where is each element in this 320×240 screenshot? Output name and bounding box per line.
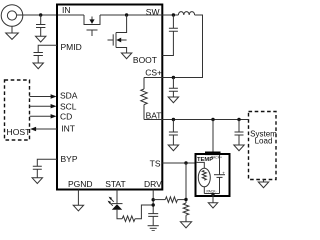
node DRV junction lower	[152, 203, 155, 206]
svg-text:CS+: CS+	[145, 67, 162, 77]
ground (jack)	[6, 26, 19, 39]
capacitor C8 (DRV)	[148, 214, 158, 226]
wire R3 to TS node	[178, 199, 187, 201]
svg-text:INT: INT	[61, 123, 75, 133]
wire BAT to pack	[212, 120, 214, 152]
input DC jack J1	[1, 5, 23, 27]
wire PGND	[77, 190, 79, 206]
node BAT junction 3	[237, 118, 240, 121]
wire SCL with arrow	[30, 104, 57, 108]
node input junction	[39, 13, 42, 16]
wire CD with arrow	[30, 114, 57, 118]
resistor R-sense internal	[141, 78, 147, 120]
battery cell BT1	[214, 155, 225, 194]
ground (C7)	[234, 145, 244, 151]
node BAT junction 2	[211, 118, 214, 121]
thermistor RT pack NTC	[196, 162, 210, 193]
capacitor C6 (BAT)	[169, 120, 178, 146]
svg-text:BOOT: BOOT	[133, 55, 157, 65]
capacitor C3 (BYP)	[33, 166, 42, 178]
HOST dashed box	[5, 80, 30, 140]
wire TS	[162, 162, 195, 164]
ground (C6)	[168, 145, 178, 151]
wire PMID	[38, 45, 57, 52]
wire pack to ground	[212, 194, 214, 203]
ground (pack)	[208, 203, 217, 208]
node SW junction	[172, 13, 175, 16]
node CS+ junction	[172, 76, 175, 79]
capacitor C7 (BAT output)	[235, 120, 244, 146]
ground (C3)	[32, 178, 42, 184]
svg-text:+: +	[222, 170, 225, 175]
ground (R4)	[180, 222, 191, 228]
node pack bottom junction	[211, 193, 214, 196]
node SW internal junction	[125, 13, 128, 16]
wire STAT to LED	[116, 190, 118, 204]
svg-text:SCL: SCL	[60, 101, 77, 111]
svg-text:HOST: HOST	[7, 127, 32, 137]
wire jack to IN pin	[17, 14, 84, 16]
wire TS node down	[185, 163, 187, 203]
wire DRV to R3	[153, 199, 165, 201]
resistor R4 (TS to ground)	[183, 203, 189, 215]
ground (PGND)	[73, 205, 83, 211]
svg-text:Load: Load	[255, 137, 273, 146]
ground (C8 multibar)	[148, 226, 159, 231]
ground (Q2 source)	[121, 53, 131, 59]
wire SDA with arrow	[30, 94, 57, 98]
wire R2 to DRV node	[135, 205, 153, 219]
wire DRV	[152, 190, 154, 214]
svg-text:DRV: DRV	[144, 179, 162, 189]
battery pack TEMP box	[196, 154, 230, 196]
wire BAT rail	[144, 119, 248, 121]
wire pack bottom	[204, 193, 219, 195]
transistor Q2 low-side FET	[108, 15, 127, 53]
ground (system load)	[258, 182, 268, 188]
svg-text:PACK+: PACK+	[211, 155, 222, 159]
transistor Q1 high-side FET	[84, 15, 100, 36]
svg-text:STAT: STAT	[105, 179, 125, 189]
wire internal input rail	[100, 14, 162, 16]
svg-text:PMID: PMID	[61, 42, 82, 52]
svg-text:TS: TS	[150, 159, 161, 169]
node BAT junction 1	[172, 118, 175, 121]
ground (C2)	[33, 63, 43, 69]
svg-text:PGND: PGND	[68, 179, 93, 189]
node TS junction	[184, 161, 187, 164]
LED D1 status	[108, 197, 123, 210]
capacitor C4 (BOOT bootstrap)	[162, 15, 178, 56]
System Load dashed box	[249, 112, 277, 180]
wire CS+ internal	[144, 77, 162, 79]
wire INT with arrow toward host	[30, 127, 57, 131]
svg-text:IN: IN	[62, 5, 71, 15]
IC U1 charger body	[57, 5, 162, 190]
resistor R2 (LED series)	[122, 216, 135, 222]
wire BYP	[37, 159, 57, 166]
ground (C1)	[36, 36, 46, 42]
ground (C5)	[168, 97, 178, 103]
resistor R3 (DRV to TS)	[165, 197, 177, 203]
inductor L1	[178, 12, 194, 15]
wire L1 to CS node	[162, 15, 202, 78]
svg-text:BYP: BYP	[61, 154, 78, 164]
capacitor C5 (CS+)	[169, 78, 178, 98]
pack positive terminal bar	[205, 152, 221, 156]
svg-text:SDA: SDA	[60, 91, 78, 101]
wire R4 to ground	[185, 215, 187, 222]
capacitor C1 (input)	[36, 15, 45, 36]
wire SW out	[162, 14, 178, 16]
capacitor C2 (PMID)	[34, 53, 43, 64]
node TS divider junction	[184, 198, 187, 201]
wire system load to ground	[263, 180, 265, 183]
node DRV junction upper	[152, 198, 155, 201]
svg-text:CD: CD	[60, 111, 72, 121]
wire LED cathode down	[117, 210, 122, 219]
